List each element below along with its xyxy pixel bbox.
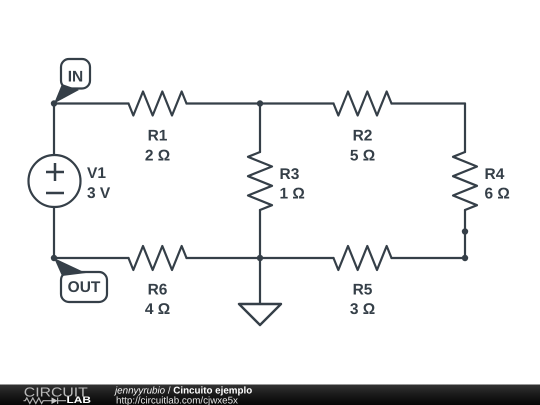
wire top-mid: R1 to R2 through node A <box>187 102 334 104</box>
wire R3 top stub <box>259 104 261 153</box>
svg-text:R3: R3 <box>280 166 300 183</box>
V1 plus symbol <box>46 163 64 181</box>
wire right-lower: R4 to bottom corner <box>464 210 466 258</box>
footer logo diode triangle <box>52 397 58 404</box>
svg-text:R6: R6 <box>148 281 168 298</box>
node dot right mid-wire <box>462 228 468 234</box>
svg-text:3 V: 3 V <box>87 185 111 202</box>
wire right-upper: corner down to R4 <box>464 104 466 153</box>
node dot A (R3 top junction) <box>257 100 263 106</box>
wire R3 bottom stub <box>259 210 261 258</box>
svg-text:http://circuitlab.com/cjwxe5x: http://circuitlab.com/cjwxe5x <box>116 395 238 405</box>
resistor R5 <box>334 246 392 270</box>
svg-text:6 Ω: 6 Ω <box>485 185 510 202</box>
svg-text:1 Ω: 1 Ω <box>280 185 305 202</box>
ground symbol triangle <box>239 304 281 325</box>
svg-text:OUT: OUT <box>68 279 101 296</box>
svg-text:4 Ω: 4 Ω <box>145 301 170 318</box>
flag OUT box <box>61 272 107 302</box>
wire bottom-left: R6 to OUT node <box>54 257 129 259</box>
flag OUT tail <box>54 258 86 276</box>
wire top-left: IN node to R1 <box>54 102 129 104</box>
resistor R6 <box>129 246 187 270</box>
wire bottom-mid: R5 to R6 through ground node <box>187 257 334 259</box>
node dot IN <box>51 100 57 106</box>
flag IN box <box>61 59 90 89</box>
V1 minus symbol <box>46 192 64 195</box>
svg-text:2 Ω: 2 Ω <box>145 148 170 165</box>
wire bottom-right: corner to R5 <box>392 257 466 259</box>
flag IN tail <box>54 84 79 104</box>
wire top-right: R2 to corner <box>392 102 466 104</box>
resistor R2 <box>334 92 392 116</box>
footer logo resistor-diode glyph <box>24 398 67 404</box>
svg-text:3 Ω: 3 Ω <box>350 301 375 318</box>
footer bar <box>0 385 540 405</box>
svg-text:R1: R1 <box>148 127 168 144</box>
svg-text:R4: R4 <box>485 166 505 183</box>
node dot ground junction <box>257 255 263 261</box>
node dot OUT <box>51 255 57 261</box>
svg-text:R5: R5 <box>353 281 373 298</box>
wire left-lower: V1 to OUT node <box>53 207 55 258</box>
svg-text:IN: IN <box>68 69 84 86</box>
resistor R3 <box>248 152 272 210</box>
svg-text:5 Ω: 5 Ω <box>350 148 375 165</box>
wire ground stub <box>259 258 261 304</box>
voltage source V1 circle <box>29 155 81 207</box>
node dot bottom-right corner <box>462 255 468 261</box>
svg-text:R2: R2 <box>353 127 373 144</box>
resistor R4 <box>453 152 477 210</box>
svg-text:V1: V1 <box>87 165 106 182</box>
resistor R1 <box>129 92 187 116</box>
svg-text:LAB: LAB <box>67 395 92 405</box>
wire left-upper: IN node to V1 <box>53 104 55 156</box>
